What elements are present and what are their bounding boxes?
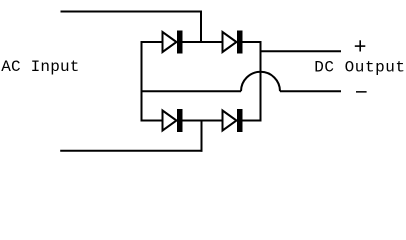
wire: bottom row segment D3 to D4 bbox=[182, 120, 222, 122]
diode D3 cathode bar bbox=[177, 109, 183, 132]
wire: DC plus output horizontal bbox=[261, 50, 342, 52]
diode D1 triangle bbox=[163, 32, 177, 52]
wire: AC top horizontal bbox=[61, 11, 203, 13]
wire: AC top vertical drop to top diode row bbox=[200, 11, 202, 44]
wire: DC minus output horizontal, left part bbox=[141, 90, 242, 92]
diode D4 triangle bbox=[223, 111, 237, 131]
wire: bottom row segment D4 to right corner bbox=[242, 120, 262, 122]
wire: DC minus output horizontal, right part bbox=[280, 90, 341, 92]
wire hop: minus wire jumps over positive vertical bbox=[241, 72, 280, 91]
wire: AC bottom horizontal bbox=[60, 150, 202, 152]
diode D4 cathode bar bbox=[237, 109, 243, 132]
wire: right vertical (positive rail joining D2/D4 cathodes) bbox=[260, 41, 262, 122]
diode D1 cathode bar bbox=[177, 31, 183, 54]
wire: bottom row segment left vertical to D3 bbox=[141, 120, 163, 122]
wire: top row segment D2 to right corner bbox=[242, 41, 262, 43]
diode D3 triangle bbox=[163, 111, 177, 131]
svg-text:AC Input: AC Input bbox=[1, 58, 79, 76]
diode D2 cathode bar bbox=[237, 31, 243, 54]
wire: top row segment left vertical to D1 bbox=[141, 41, 163, 43]
diode D2 triangle bbox=[223, 32, 237, 52]
wire: AC bottom vertical rise to bottom diode row bbox=[201, 121, 203, 152]
wire: left vertical (negative-side rail joining D1/D3 anodes) bbox=[141, 41, 143, 122]
minus terminal symbol bbox=[356, 91, 367, 93]
wire: top row segment D1 to D2 bbox=[182, 41, 222, 43]
svg-text:DC Output: DC Output bbox=[314, 58, 405, 76]
plus terminal symbol bbox=[355, 45, 366, 47]
